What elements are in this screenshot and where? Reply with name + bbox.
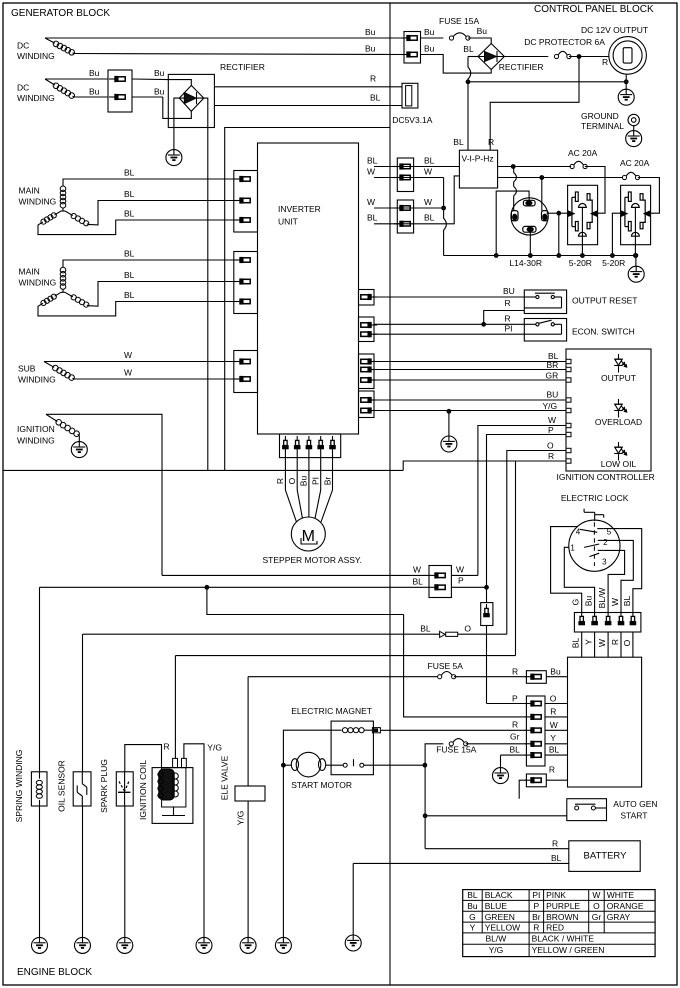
- wire P out: [451, 586, 486, 588]
- svg-text:BU: BU: [503, 286, 515, 296]
- spark plug: [99, 759, 133, 813]
- labels 5pin right: [549, 694, 560, 755]
- econ switch box: [524, 319, 635, 342]
- svg-text:DC: DC: [17, 83, 29, 93]
- svg-text:W: W: [367, 167, 375, 177]
- wire BU controller: [374, 390, 566, 401]
- svg-text:GRAY: GRAY: [607, 912, 631, 922]
- wires 5pin to box: [545, 704, 568, 756]
- svg-text:Gr: Gr: [592, 912, 602, 922]
- ground terminal: [581, 111, 639, 131]
- svg-text:R: R: [610, 639, 620, 645]
- start motor: [291, 752, 352, 790]
- svg-text:BL: BL: [622, 596, 632, 607]
- wire spring top: [39, 587, 41, 772]
- fuse 15A top: [421, 16, 488, 40]
- ground controller: [441, 436, 457, 453]
- wire dc2 Bu to rectifier bottom: [132, 87, 165, 98]
- bullet connector P: [481, 585, 493, 625]
- wire BL ground 5pin: [501, 755, 527, 768]
- wire O controller: [507, 441, 566, 635]
- wire bus to ground: [634, 254, 638, 267]
- svg-text:MAIN: MAIN: [19, 186, 40, 196]
- svg-text:O: O: [550, 694, 557, 704]
- wire YG ground stem: [447, 409, 451, 436]
- svg-text:4: 4: [576, 527, 581, 536]
- wire bridge dc+ long vertical: [204, 98, 208, 470]
- junction dot protector: [569, 55, 609, 67]
- wire P controller: [487, 425, 567, 587]
- wire fuse5a to box: [546, 676, 567, 678]
- wire main2 BL bottom: [38, 290, 234, 316]
- wire spring branch: [207, 587, 404, 614]
- svg-text:V-I-P-Hz: V-I-P-Hz: [462, 154, 494, 164]
- svg-text:WINDING: WINDING: [17, 93, 55, 103]
- svg-text:M: M: [302, 528, 315, 545]
- svg-text:DC: DC: [17, 41, 29, 51]
- wire bus riser 5-20R2 bottom: [634, 207, 638, 257]
- svg-text:FUSE 15A: FUSE 15A: [439, 16, 479, 26]
- rectifier bridge diamond: [179, 85, 204, 111]
- svg-text:5-20R: 5-20R: [602, 258, 625, 268]
- wire stepper Bu: [299, 448, 309, 517]
- svg-text:YELLOW / GREEN: YELLOW / GREEN: [532, 945, 605, 955]
- ignition winding: [17, 414, 79, 445]
- wire battery BL ground: [352, 863, 354, 935]
- svg-text:PI: PI: [311, 477, 321, 485]
- wire YG controller: [374, 401, 566, 411]
- svg-text:R: R: [550, 707, 556, 717]
- ground ignition winding: [71, 441, 87, 458]
- inverter left connector main1: [234, 171, 258, 233]
- inverter bottom connector: [280, 434, 341, 458]
- svg-text:Br: Br: [323, 477, 333, 486]
- dc 12v output socket: [581, 25, 648, 74]
- svg-text:P: P: [534, 901, 540, 911]
- ground coil: [196, 937, 212, 954]
- svg-text:Bu: Bu: [154, 68, 165, 78]
- svg-text:PINK: PINK: [546, 890, 566, 900]
- svg-text:BL: BL: [367, 213, 378, 223]
- wire fuse to bridge: [468, 38, 491, 44]
- electric lock switch: [569, 520, 620, 571]
- svg-text:IGNITION COIL: IGNITION COIL: [138, 760, 148, 820]
- stepper motor M: [263, 517, 362, 565]
- svg-text:W: W: [550, 720, 558, 730]
- svg-text:UNIT: UNIT: [278, 217, 298, 227]
- dc winding 2: [17, 79, 74, 103]
- wire dc2 top Bu: [45, 68, 108, 79]
- wire dot to L14 pin: [514, 167, 517, 212]
- receptacle 5-20R 2: [602, 185, 651, 268]
- wire Rconn to autogen: [519, 780, 526, 799]
- controller pin 2: [566, 367, 571, 371]
- connector wbl: [413, 565, 465, 598]
- rectifier box: [168, 62, 265, 128]
- svg-text:Y: Y: [550, 733, 556, 743]
- connector ac b: [394, 200, 414, 233]
- svg-text:BL: BL: [463, 44, 474, 54]
- svg-text:G: G: [571, 599, 581, 606]
- svg-text:DC5V3.1A: DC5V3.1A: [392, 115, 432, 125]
- wire dc2 bottom Bu: [74, 87, 108, 98]
- vip-hz box: [459, 150, 497, 188]
- wire BL2 inverter: [367, 176, 459, 224]
- svg-text:BLUE: BLUE: [485, 901, 508, 911]
- svg-text:START MOTOR: START MOTOR: [291, 780, 352, 790]
- controller pin 4: [566, 398, 571, 402]
- wire lock 1 to Bu: [564, 547, 594, 612]
- controller pin 6: [566, 423, 571, 427]
- wire bu1 into bridge: [168, 80, 191, 86]
- svg-text:W: W: [413, 565, 421, 575]
- lamp OUTPUT: [601, 354, 636, 383]
- svg-text:Br: Br: [532, 912, 541, 922]
- wire oil top: [82, 634, 84, 772]
- diode oil sensor: [83, 624, 507, 638]
- wire bus jog to R: [403, 461, 515, 470]
- wire auto gen start feed: [425, 815, 567, 817]
- controller pin 1: [566, 359, 571, 363]
- dc5v box: [392, 83, 432, 125]
- wire bridge to ground: [174, 98, 179, 150]
- wire rectifier R output: [214, 74, 402, 87]
- wire L14 right to 5-20R1: [547, 211, 568, 215]
- svg-text:WINDING: WINDING: [19, 197, 57, 207]
- svg-text:BL: BL: [124, 290, 135, 300]
- svg-text:R: R: [164, 742, 170, 752]
- wire stepper PI: [311, 448, 321, 519]
- svg-text:BROWN: BROWN: [546, 912, 579, 922]
- svg-text:Bu: Bu: [154, 87, 165, 97]
- wire motor ground: [282, 765, 284, 937]
- svg-text:ECON. SWITCH: ECON. SWITCH: [572, 327, 635, 337]
- wire oil bottom: [82, 806, 84, 938]
- inverter unit box: [258, 143, 359, 434]
- svg-text:Y: Y: [584, 639, 594, 645]
- wire neutral bus: [444, 255, 636, 257]
- ground receptacle: [628, 266, 644, 283]
- svg-text:R: R: [488, 137, 494, 147]
- wire BL controller: [374, 351, 566, 362]
- fuse 5A: [248, 661, 527, 679]
- svg-text:BR: BR: [547, 360, 559, 370]
- svg-text:Bu: Bu: [550, 667, 561, 677]
- wire sub W bottom: [74, 368, 234, 380]
- wire battery vertical: [423, 765, 427, 849]
- lock connector: [574, 612, 641, 632]
- svg-text:BL: BL: [124, 270, 135, 280]
- wire stepper R: [275, 448, 297, 522]
- svg-text:WINDING: WINDING: [19, 278, 57, 288]
- wire BL1 inverter: [367, 156, 459, 167]
- controller pin 9: [566, 459, 571, 463]
- svg-text:R: R: [275, 478, 285, 484]
- svg-text:SPARK PLUG: SPARK PLUG: [99, 759, 109, 813]
- svg-text:WHITE: WHITE: [607, 890, 635, 900]
- svg-text:Bu: Bu: [424, 27, 435, 37]
- svg-text:ORANGE: ORANGE: [607, 901, 644, 911]
- svg-text:FUSE 5A: FUSE 5A: [428, 661, 464, 671]
- svg-text:Bu: Bu: [365, 44, 376, 54]
- svg-text:BL: BL: [551, 853, 562, 863]
- connector R bottom: [525, 765, 555, 787]
- svg-text:BL: BL: [367, 156, 378, 166]
- wire output reset R: [484, 298, 525, 324]
- svg-text:R: R: [370, 74, 376, 84]
- svg-text:RED: RED: [546, 923, 564, 933]
- block divider line: [389, 3, 391, 985]
- svg-text:Y/G: Y/G: [543, 401, 558, 411]
- svg-text:WINDING: WINDING: [17, 51, 55, 61]
- svg-text:R: R: [505, 298, 511, 308]
- wire R econ: [374, 314, 524, 325]
- wire sub W top: [44, 350, 234, 362]
- wire main1 BL mid: [88, 189, 234, 225]
- svg-text:Bu: Bu: [477, 26, 488, 36]
- wire R branch to VIPHz: [488, 57, 579, 151]
- ground control box: [493, 767, 509, 784]
- wire engine bus y470: [4, 469, 404, 471]
- inverter right connector b: [359, 317, 378, 342]
- svg-text:3: 3: [602, 557, 607, 566]
- wire main1 BL bottom: [38, 209, 234, 235]
- receptacle 5-20R 1: [568, 185, 598, 268]
- wire BL to socket ground: [468, 81, 626, 83]
- svg-text:Y/G: Y/G: [236, 811, 246, 826]
- breaker AC20A 2: [620, 158, 650, 180]
- svg-text:W: W: [597, 639, 607, 647]
- receptacle L14-30R: [509, 198, 548, 268]
- svg-text:MAIN: MAIN: [19, 267, 40, 277]
- ground terminal symbol: [626, 130, 642, 147]
- svg-text:PI: PI: [505, 324, 513, 334]
- junction dot econ R: [482, 322, 486, 326]
- svg-text:AC 20A: AC 20A: [620, 158, 650, 168]
- svg-text:ELECTRIC LOCK: ELECTRIC LOCK: [561, 493, 629, 503]
- svg-text:BL: BL: [370, 93, 381, 103]
- wire BL down to VIPHz: [453, 82, 468, 150]
- wire lock 3 to BLW: [604, 550, 625, 612]
- lamp LOW OIL: [601, 442, 637, 469]
- svg-text:BL/W: BL/W: [486, 934, 507, 944]
- ele valve: [220, 755, 266, 825]
- svg-text:Bu: Bu: [89, 68, 100, 78]
- spring winding: [14, 750, 47, 823]
- svg-text:CONTROL PANEL BLOCK: CONTROL PANEL BLOCK: [534, 4, 654, 15]
- svg-text:W: W: [424, 167, 432, 177]
- svg-text:W: W: [610, 598, 620, 606]
- fuse 15A bottom: [425, 739, 526, 766]
- svg-text:IGNITION CONTROLLER: IGNITION CONTROLLER: [557, 472, 655, 482]
- wire spring pulse to 5pin: [404, 615, 527, 717]
- wire bus to L14 top: [494, 191, 529, 257]
- svg-text:Y/G: Y/G: [489, 945, 504, 955]
- wire BU output reset: [374, 286, 524, 297]
- svg-text:FUSE 15A: FUSE 15A: [436, 745, 476, 755]
- svg-text:SPRING WINDING: SPRING WINDING: [14, 750, 24, 823]
- svg-text:G: G: [469, 912, 476, 922]
- inverter right connector d: [359, 391, 378, 418]
- sub winding: [18, 362, 74, 385]
- control unit box: [568, 657, 642, 787]
- svg-text:1: 1: [570, 544, 575, 553]
- ground spark: [117, 937, 133, 954]
- wire spring bottom: [39, 806, 41, 938]
- svg-text:R: R: [512, 720, 518, 730]
- inverter right connector a: [359, 290, 378, 306]
- controller pin 7: [566, 432, 571, 436]
- ground oil: [75, 937, 91, 954]
- wire W dot to L14: [541, 178, 543, 211]
- wire main1 BL top: [63, 168, 234, 187]
- svg-text:OIL SENSOR: OIL SENSOR: [57, 760, 67, 812]
- svg-text:BL: BL: [413, 577, 424, 587]
- wire R controller: [403, 451, 566, 656]
- wire main2 BL mid: [88, 270, 234, 306]
- control panel block label: [534, 4, 654, 15]
- wire battery R: [425, 839, 569, 849]
- svg-text:Y: Y: [470, 923, 476, 933]
- wire BL long: [40, 585, 430, 589]
- ground dc output: [618, 89, 634, 106]
- cp rectifier bridge: [478, 44, 544, 73]
- wire rectifier BL output: [214, 93, 402, 106]
- svg-text:Gr: Gr: [510, 731, 520, 741]
- svg-text:STEPPER MOTOR ASSY.: STEPPER MOTOR ASSY.: [263, 555, 362, 565]
- svg-text:RECTIFIER: RECTIFIER: [220, 62, 265, 72]
- svg-text:GROUND: GROUND: [581, 111, 619, 121]
- wire magnet to 5pin: [380, 729, 526, 731]
- wire lock 4 to G: [551, 527, 582, 613]
- svg-text:Bu: Bu: [467, 901, 478, 911]
- controller pin 8: [566, 448, 571, 452]
- svg-text:P: P: [512, 694, 518, 704]
- wire lock pins to box: [582, 632, 633, 657]
- svg-text:ENGINE BLOCK: ENGINE BLOCK: [17, 967, 92, 978]
- inverter right connector c: [359, 354, 378, 389]
- svg-text:RECTIFIER: RECTIFIER: [499, 62, 544, 72]
- main winding 2: [19, 267, 89, 308]
- svg-text:BU: BU: [547, 390, 559, 400]
- wire W2 inverter: [367, 197, 444, 208]
- wire lock 2 to W: [604, 540, 634, 612]
- svg-text:OVERLOAD: OVERLOAD: [595, 417, 642, 427]
- wire out1 to 5-20R: [585, 167, 605, 214]
- svg-text:Bu: Bu: [424, 44, 435, 54]
- wire bu2 to bridge: [421, 44, 492, 74]
- junction dot BL: [466, 80, 470, 84]
- ignition controller label: [557, 472, 655, 482]
- svg-text:R: R: [533, 923, 539, 933]
- wire stepper Br: [321, 448, 333, 522]
- svg-text:BLACK / WHITE: BLACK / WHITE: [532, 934, 595, 944]
- auto gen start box: [567, 799, 658, 821]
- controller pin 3: [566, 378, 571, 382]
- wire stepper O: [287, 448, 303, 519]
- ground battery: [345, 935, 361, 952]
- wire vip out2: [498, 176, 622, 180]
- electric magnet: [291, 706, 380, 775]
- wire dc1 bottom Bu: [74, 44, 405, 55]
- svg-text:Bu: Bu: [584, 596, 594, 607]
- svg-text:L14-30R: L14-30R: [509, 258, 542, 268]
- dc protector 6A: [504, 37, 605, 59]
- wire battery BL: [353, 853, 569, 863]
- wire out2 to 5-20R2: [638, 178, 660, 214]
- svg-text:R: R: [552, 839, 558, 849]
- lock labels top: [571, 588, 632, 609]
- inverter left connector sub: [234, 351, 258, 393]
- svg-text:INVERTER: INVERTER: [278, 204, 321, 214]
- wire socket to ground: [624, 74, 628, 90]
- wire switch to battery feed: [364, 763, 427, 767]
- svg-text:TERMINAL: TERMINAL: [581, 121, 624, 131]
- ground spring: [32, 937, 48, 954]
- svg-text:R: R: [602, 57, 608, 67]
- wire R to ignition coil: [174, 656, 176, 759]
- output reset box: [524, 290, 637, 314]
- svg-text:W: W: [124, 368, 132, 378]
- engine block label: [17, 967, 92, 978]
- svg-text:BL: BL: [124, 249, 135, 259]
- wire spark top: [125, 745, 162, 772]
- wire BR controller: [374, 360, 566, 370]
- svg-text:BL/W: BL/W: [597, 588, 607, 609]
- ground motor: [275, 937, 291, 954]
- svg-text:BL: BL: [549, 745, 560, 755]
- wire Rconn to box: [546, 779, 567, 781]
- svg-text:GENERATOR BLOCK: GENERATOR BLOCK: [11, 8, 110, 19]
- wire lock 5 to BL: [604, 529, 642, 613]
- wire magnet coil left: [282, 730, 332, 767]
- lamp OVERLOAD: [595, 399, 642, 427]
- svg-text:BL: BL: [420, 624, 431, 634]
- svg-text:Bu: Bu: [365, 27, 376, 37]
- wire PI econ: [374, 324, 524, 335]
- svg-text:BL: BL: [571, 638, 581, 649]
- inverter left connector main2: [234, 252, 258, 314]
- svg-text:W: W: [367, 197, 375, 207]
- wire dc2 Bu to rectifier top: [132, 68, 168, 80]
- svg-text:R: R: [548, 451, 554, 461]
- generator block label: [11, 8, 110, 19]
- wire motor to switch: [326, 764, 344, 766]
- svg-text:AC 20A: AC 20A: [568, 148, 598, 158]
- controller pin 5: [566, 408, 571, 412]
- wire valve top: [247, 677, 249, 786]
- svg-text:P: P: [548, 425, 554, 435]
- oil sensor: [57, 760, 92, 812]
- ground rectifier: [166, 149, 182, 166]
- wire W1 inverter: [367, 167, 444, 178]
- svg-text:BL: BL: [424, 213, 435, 223]
- wire W long: [162, 574, 429, 576]
- svg-text:GREEN: GREEN: [485, 912, 515, 922]
- ignition coil: [138, 758, 193, 823]
- svg-text:P: P: [458, 576, 464, 586]
- color code legend table: [463, 890, 655, 957]
- wire bus riser 5-20R1 left: [557, 213, 561, 257]
- wire bu2 into bridge: [163, 97, 192, 118]
- wire valve bottom: [247, 801, 249, 938]
- wire ignition to ground: [78, 435, 80, 442]
- wire bus riser 5-20R2 left: [611, 213, 621, 257]
- connector ac a: [394, 158, 414, 192]
- svg-text:YELLOW: YELLOW: [485, 923, 520, 933]
- wire W out up: [451, 574, 478, 576]
- svg-text:R: R: [549, 765, 555, 775]
